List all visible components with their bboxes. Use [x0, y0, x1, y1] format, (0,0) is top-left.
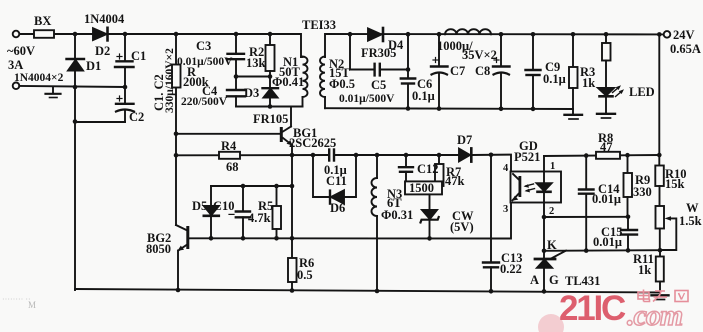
ground input [52, 87, 54, 94]
svg-text:C1: C1 [131, 49, 146, 63]
wire C2 return [75, 121, 125, 123]
capacitor C7 [438, 34, 440, 66]
resistor R4 [219, 152, 240, 159]
svg-text:0.01μ/500V: 0.01μ/500V [177, 56, 233, 68]
svg-text:330μ/160V×2: 330μ/160V×2 [164, 48, 176, 113]
svg-text:TEI33: TEI33 [302, 18, 336, 32]
svg-text:C10: C10 [213, 199, 235, 213]
svg-text:0.01μ/500V: 0.01μ/500V [339, 93, 395, 105]
svg-text:LED: LED [629, 85, 655, 99]
svg-text:1k: 1k [638, 263, 651, 277]
diode D7 [459, 149, 470, 162]
wire top rail secondary [325, 34, 664, 57]
resistor R7 [438, 155, 440, 164]
capacitor C10 [242, 186, 244, 211]
svg-text:0.1μ: 0.1μ [412, 89, 435, 103]
svg-text:0.65A: 0.65A [670, 42, 701, 56]
node junction top-left [73, 32, 78, 37]
capacitor C2 [124, 87, 126, 104]
capacitor C4 [235, 77, 237, 90]
capacitor C5 loop [348, 32, 353, 37]
watermark pale disc [538, 314, 564, 332]
svg-text:Φ0.41: Φ0.41 [272, 75, 304, 89]
svg-text:1k: 1k [582, 76, 595, 90]
svg-text:P521: P521 [514, 150, 540, 164]
wire R8 rail [544, 155, 659, 156]
svg-text:C11: C11 [326, 174, 347, 188]
capacitor C15 [627, 217, 629, 230]
wire drive line y155 [176, 154, 329, 156]
capacitor C11 [328, 150, 330, 161]
svg-text:········ ··: ········ ·· [2, 295, 31, 304]
shunt regulator TL431 [543, 217, 545, 259]
capacitor C8 [500, 34, 502, 66]
wire BG1 emitter vertical [291, 145, 293, 291]
svg-text:C2: C2 [129, 110, 144, 124]
svg-text:.com: .com [627, 299, 682, 332]
transistor BG1 [283, 127, 291, 132]
wire top rail primary [19, 34, 301, 57]
wire left vertical [74, 87, 76, 290]
diode D3 [269, 77, 271, 89]
resistor R8 [596, 152, 620, 159]
wire K line y250 [544, 249, 660, 252]
svg-text:4.7k: 4.7k [248, 211, 271, 225]
svg-text:R4: R4 [221, 139, 237, 153]
capacitor C9 [532, 34, 534, 70]
svg-text:D7: D7 [457, 133, 472, 147]
diode D5 [210, 186, 212, 206]
svg-text:47: 47 [600, 140, 613, 154]
wire D5 network top [211, 185, 292, 187]
value box 1500 [405, 181, 442, 194]
svg-text:1500: 1500 [409, 181, 434, 195]
zener CW [429, 194, 431, 210]
wire BG1 collector [290, 107, 292, 127]
capacitor C6 [407, 34, 409, 78]
capacitor C14 [585, 156, 587, 190]
svg-text:C12: C12 [417, 162, 439, 176]
svg-text:220/500V: 220/500V [181, 96, 228, 108]
resistor LED series [605, 34, 607, 43]
svg-text:TL431: TL431 [565, 274, 600, 288]
svg-text:13k: 13k [246, 56, 266, 70]
opto phototransistor [513, 174, 519, 180]
svg-text:(5V): (5V) [450, 220, 474, 234]
wire bottom rail [75, 289, 660, 293]
svg-text:1N4004×2: 1N4004×2 [14, 72, 64, 84]
capacitor C13 [490, 155, 492, 262]
resistor R11 [659, 250, 661, 256]
svg-text:FR305: FR305 [361, 46, 396, 60]
svg-text:Φ0.5: Φ0.5 [329, 77, 355, 91]
svg-text:15k: 15k [665, 177, 685, 191]
svg-text:0.22: 0.22 [500, 262, 522, 276]
wire BG2 base rail y238 [189, 203, 511, 239]
inductor choke [445, 29, 491, 34]
wire startup branch vertical [175, 34, 177, 225]
svg-text:47k: 47k [445, 174, 465, 188]
potentiometer W [656, 206, 665, 229]
resistor R10 column [658, 34, 660, 165]
wire BG1 base line [176, 133, 280, 135]
terminal output 24V [664, 31, 671, 38]
ground secondary [565, 114, 583, 116]
resistor R5 [276, 186, 278, 206]
transformer N1 winding [301, 56, 303, 58]
wire pin2 node line y217 [544, 216, 628, 218]
capacitor C1 [124, 34, 126, 61]
LED [605, 61, 607, 89]
diode D1 [74, 34, 76, 59]
svg-text:0.01μ: 0.01μ [593, 235, 622, 249]
terminal input bottom [13, 83, 20, 90]
svg-text:0.5: 0.5 [297, 268, 313, 282]
svg-text:D3: D3 [244, 86, 259, 100]
svg-text:D6: D6 [330, 201, 345, 215]
transformer N2 winding [320, 57, 325, 97]
svg-text:G: G [549, 273, 559, 287]
svg-text:FR105: FR105 [253, 112, 288, 126]
resistor R6 [288, 258, 297, 282]
ground R11 [652, 294, 669, 296]
svg-text:2: 2 [549, 206, 554, 217]
svg-text:24V: 24V [673, 28, 695, 42]
resistor R9 [627, 155, 629, 173]
svg-text:~60V: ~60V [7, 44, 35, 58]
svg-text:8050: 8050 [146, 242, 171, 256]
node pin2 [542, 215, 547, 220]
resistor R2 [269, 34, 271, 45]
svg-text:1: 1 [550, 161, 555, 172]
opto arrows [526, 184, 534, 186]
wire input mid rail [19, 86, 125, 87]
svg-text:330: 330 [633, 185, 652, 199]
capacitor C12 [405, 155, 407, 167]
wire secondary bus [325, 107, 573, 110]
capacitor C3 [235, 34, 237, 54]
svg-text:21IC: 21IC [559, 289, 626, 328]
svg-text:D2: D2 [95, 44, 110, 58]
svg-text:0.01μ: 0.01μ [592, 192, 621, 206]
node snubber [236, 76, 270, 78]
svg-text:C3: C3 [196, 39, 211, 53]
TL431 ref diagonal [551, 251, 567, 259]
optocoupler U GD P521 box [511, 172, 562, 203]
svg-text:M: M [28, 300, 36, 310]
svg-text:35V×2: 35V×2 [462, 48, 497, 62]
svg-text:0.1μ: 0.1μ [543, 72, 566, 86]
diode D6 loop [313, 155, 330, 197]
fuse BX [34, 30, 54, 38]
svg-text:C7: C7 [450, 64, 465, 78]
LED arrows [613, 87, 620, 93]
svg-text:1N4004: 1N4004 [84, 12, 125, 26]
watermark dianziwang glyphs [638, 290, 688, 302]
svg-text:A: A [530, 273, 539, 287]
diode D2 [93, 28, 107, 40]
diode D4 [368, 28, 382, 40]
svg-text:K: K [547, 238, 557, 252]
svg-text:1.5k: 1.5k [679, 214, 702, 228]
svg-text:D1: D1 [86, 59, 101, 73]
svg-text:3A: 3A [8, 58, 23, 72]
svg-text:BX: BX [34, 14, 51, 28]
resistor R 200k [172, 65, 181, 88]
svg-text:68: 68 [226, 160, 239, 174]
svg-text:W: W [686, 201, 699, 215]
svg-text:C5: C5 [371, 78, 386, 92]
svg-text:2SC2625: 2SC2625 [289, 136, 336, 150]
svg-text:Φ0.31: Φ0.31 [381, 208, 413, 222]
transformer N3 winding [376, 155, 378, 178]
svg-text:C8: C8 [475, 64, 490, 78]
resistor R3 [572, 34, 574, 67]
ground LED [597, 113, 615, 115]
svg-text:3: 3 [503, 204, 508, 215]
opto LED [543, 156, 545, 183]
svg-text:4: 4 [503, 163, 509, 174]
node mid rail junctions [73, 85, 78, 90]
terminal input top [13, 31, 20, 38]
wire collector node [236, 106, 303, 108]
transistor BG2 [176, 225, 187, 231]
svg-text:D5: D5 [192, 199, 207, 213]
